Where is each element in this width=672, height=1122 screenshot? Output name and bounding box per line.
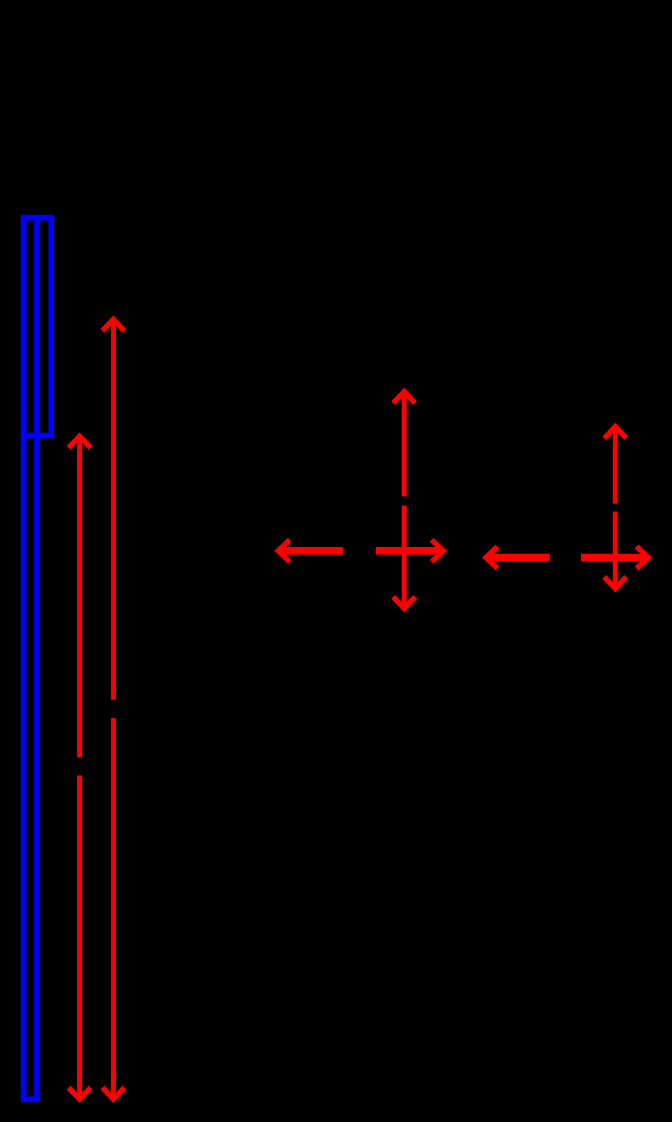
cross 1 vertical arrow (x=404.2) [393, 392, 415, 609]
shaft upper segment [613, 427, 618, 504]
wide upper blue tube [24, 218, 52, 436]
short vertical dimension arrow (x=79.6) [69, 436, 91, 1099]
top head [393, 392, 415, 404]
long vertical dimension arrow (x=113.4) [102, 319, 124, 1099]
shaft upper segment [111, 320, 116, 700]
right head [637, 547, 649, 569]
shaft lower segment [77, 775, 82, 1099]
shaft lower segment [402, 506, 407, 609]
bottom head [69, 1088, 91, 1100]
cross 1 horizontal arrow (y=550.8) [278, 540, 443, 562]
shaft left segment [486, 554, 550, 562]
narrow tall blue tube [24, 218, 37, 1100]
shaft upper segment [77, 437, 82, 758]
right head [432, 540, 444, 562]
left head [278, 540, 290, 562]
shaft right segment [581, 554, 646, 562]
shaft lower segment [613, 512, 618, 589]
shaft right segment [376, 547, 441, 555]
top head [604, 427, 626, 439]
shaft left segment [278, 547, 343, 555]
shaft upper segment [402, 392, 407, 497]
bottom head [393, 597, 415, 609]
top head [102, 319, 124, 331]
bottom head [604, 577, 626, 589]
shaft lower segment [111, 718, 116, 1099]
cross 2 vertical arrow (x=615.3) [604, 427, 626, 589]
left head [486, 547, 498, 569]
top head [69, 436, 91, 448]
cross 2 horizontal arrow (y=557.5) [486, 547, 648, 569]
bottom head [102, 1088, 124, 1100]
